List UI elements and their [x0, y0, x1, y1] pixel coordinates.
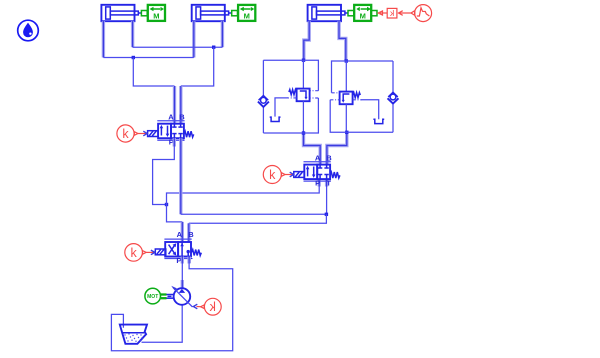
- spring of valve V2: [330, 172, 340, 178]
- wire: left counterbalance outlet to valve V2 port A: [304, 133, 321, 165]
- wire: left counterbalance upper pilot (from inlet): [304, 60, 319, 90]
- wire: pressure node to valve V3 port A: [167, 205, 183, 222]
- svg-text:B: B: [179, 112, 185, 121]
- node: left counterbalance outlet junction: [302, 131, 305, 134]
- hydraulic domain badge (droplet icon): [18, 20, 39, 41]
- spring of CB1: [289, 90, 297, 95]
- signal constant k2 (red circle) driving valve V2: [263, 166, 293, 184]
- wire: tank return rail T-net: [181, 213, 327, 215]
- wire: right counterbalance outlet to valve V2 port B: [327, 132, 347, 165]
- wire: CB1 drain to drain tank: [288, 97, 297, 99]
- wire: right counterbalance lower pilot (from outlet): [330, 100, 347, 133]
- spring of valve V3: [191, 250, 201, 256]
- node: cap bus junction: [132, 56, 135, 59]
- counterbalance valve CB1 (left): [297, 89, 310, 102]
- wire: cap bus to valve V1 port A: [133, 58, 174, 87]
- wire: CYL1 rod-side port drop: [131, 21, 134, 47]
- signal wire from gain K1 to mass M3: [378, 11, 387, 15]
- wire: rod bus to valve V1 port B: [181, 47, 214, 86]
- directional valve V2 (4/2, solenoid + spring): [304, 162, 331, 181]
- svg-text:k: k: [209, 300, 216, 314]
- node: pressure junction P-net: [165, 203, 168, 206]
- wire: right bypass branch with check valve: [392, 61, 394, 92]
- wire: valve V3 port P to pump outlet: [181, 257, 184, 264]
- node: left counterbalance inlet junction: [302, 59, 305, 62]
- wire: cap-side bus: [103, 57, 193, 59]
- wire: right counterbalance main inlet drop: [345, 61, 347, 92]
- svg-text:k: k: [269, 168, 276, 182]
- svg-text:B: B: [188, 230, 194, 239]
- counterbalance valve CB2 (right): [340, 92, 353, 105]
- node: right counterbalance outlet junction: [345, 131, 348, 134]
- gain block K1: [387, 8, 397, 18]
- wire: CYL1 cap-side port drop: [102, 21, 105, 57]
- signal constant k3 (red circle) driving valve V3: [125, 244, 155, 262]
- wire: valve V2 port T stub: [325, 179, 328, 186]
- cylinder CYL1 (top left): [101, 5, 141, 21]
- svg-text:T: T: [326, 178, 331, 187]
- directional valve V1 (4/2, solenoid + spring): [157, 121, 184, 140]
- node: rod bus junction: [212, 46, 215, 49]
- wire: left counterbalance top rail: [263, 59, 303, 61]
- svg-text:M: M: [153, 12, 159, 21]
- svg-text:A: A: [315, 153, 321, 162]
- svg-text:M: M: [244, 12, 250, 21]
- cylinder CYL3 (top right): [308, 5, 348, 21]
- svg-text:B: B: [326, 153, 332, 162]
- wire: left counterbalance bottom rail: [263, 132, 303, 134]
- drive shaft between MOT and pump P1: [161, 295, 175, 299]
- wire: pressure node to valve V2 port P: [167, 186, 320, 204]
- wire: CB2 drain to drain tank: [353, 99, 362, 101]
- mass load M2 (green) for CYL2: [232, 5, 256, 21]
- wire: rod-side bus: [133, 46, 223, 48]
- wire: T-net to valve V3 port B: [189, 214, 327, 223]
- svg-text:A: A: [177, 230, 183, 239]
- check valve CV2 (right bypass): [388, 92, 399, 103]
- wire: CYL2 rod-side port drop: [221, 21, 224, 47]
- svg-text:k: k: [130, 246, 137, 260]
- solenoid of valve V2: [294, 172, 305, 178]
- signal constant k4 (red circle) controlling pump displacement: [193, 298, 221, 315]
- wire: CB2 outlet drop: [345, 104, 347, 132]
- spring of valve V1: [184, 131, 194, 137]
- svg-text:A: A: [168, 112, 174, 121]
- wire: valve V3 port T return line to tank: [187, 257, 190, 264]
- wire: left counterbalance main inlet drop: [302, 60, 304, 88]
- wire: CB1 outlet drop: [302, 101, 304, 133]
- wire: left bypass branch with check valve: [262, 60, 264, 95]
- solenoid of valve V3: [155, 249, 166, 255]
- wire: right counterbalance upper pilot (from inlet): [332, 61, 347, 93]
- wire: valve V1 port P to pressure node: [173, 138, 176, 146]
- drain tank DT1: [270, 117, 281, 121]
- svg-text:k: k: [122, 127, 129, 141]
- reservoir tank T1: [120, 325, 147, 344]
- wire: pump suction from tank: [142, 305, 183, 342]
- svg-text:M: M: [360, 12, 366, 21]
- spring of CB2: [353, 93, 361, 98]
- variable displacement pump P1: [171, 286, 192, 307]
- wire: right counterbalance bottom rail: [347, 131, 393, 133]
- signal constant k1 (red circle) driving valve V1: [117, 125, 147, 142]
- wire: left counterbalance lower pilot (from outlet): [304, 98, 319, 133]
- node: T-net junction at valve V2: [325, 213, 328, 216]
- node: right counterbalance inlet junction: [345, 59, 348, 62]
- svg-text:MOT: MOT: [147, 294, 158, 300]
- electric motor MOT (green circle): [145, 288, 161, 304]
- mass load M1 (green) for CYL1: [141, 5, 165, 21]
- drain tank DT2: [373, 119, 384, 123]
- signal source SG1 (waveform generator): [411, 5, 432, 22]
- signal wire from source SG1 to gain K1: [398, 11, 411, 16]
- cylinder CYL2 (top middle): [192, 5, 232, 21]
- wire: right counterbalance top rail: [346, 60, 393, 62]
- wire: valve V1 port T drop: [179, 138, 182, 214]
- mass load M3 (green) for CYL3: [348, 5, 377, 21]
- directional valve V3 (4/2 crossed, solenoid + spring): [164, 239, 191, 258]
- solenoid of valve V1: [148, 131, 159, 137]
- check valve CV1 (left bypass): [258, 96, 269, 107]
- svg-text:P: P: [315, 178, 320, 187]
- wire: CYL3 rod-side port to counterbalance right branch: [339, 21, 346, 61]
- wire: CYL3 cap-side port to counterbalance left branch: [304, 21, 309, 60]
- wire: CYL2 cap-side port drop: [192, 21, 195, 57]
